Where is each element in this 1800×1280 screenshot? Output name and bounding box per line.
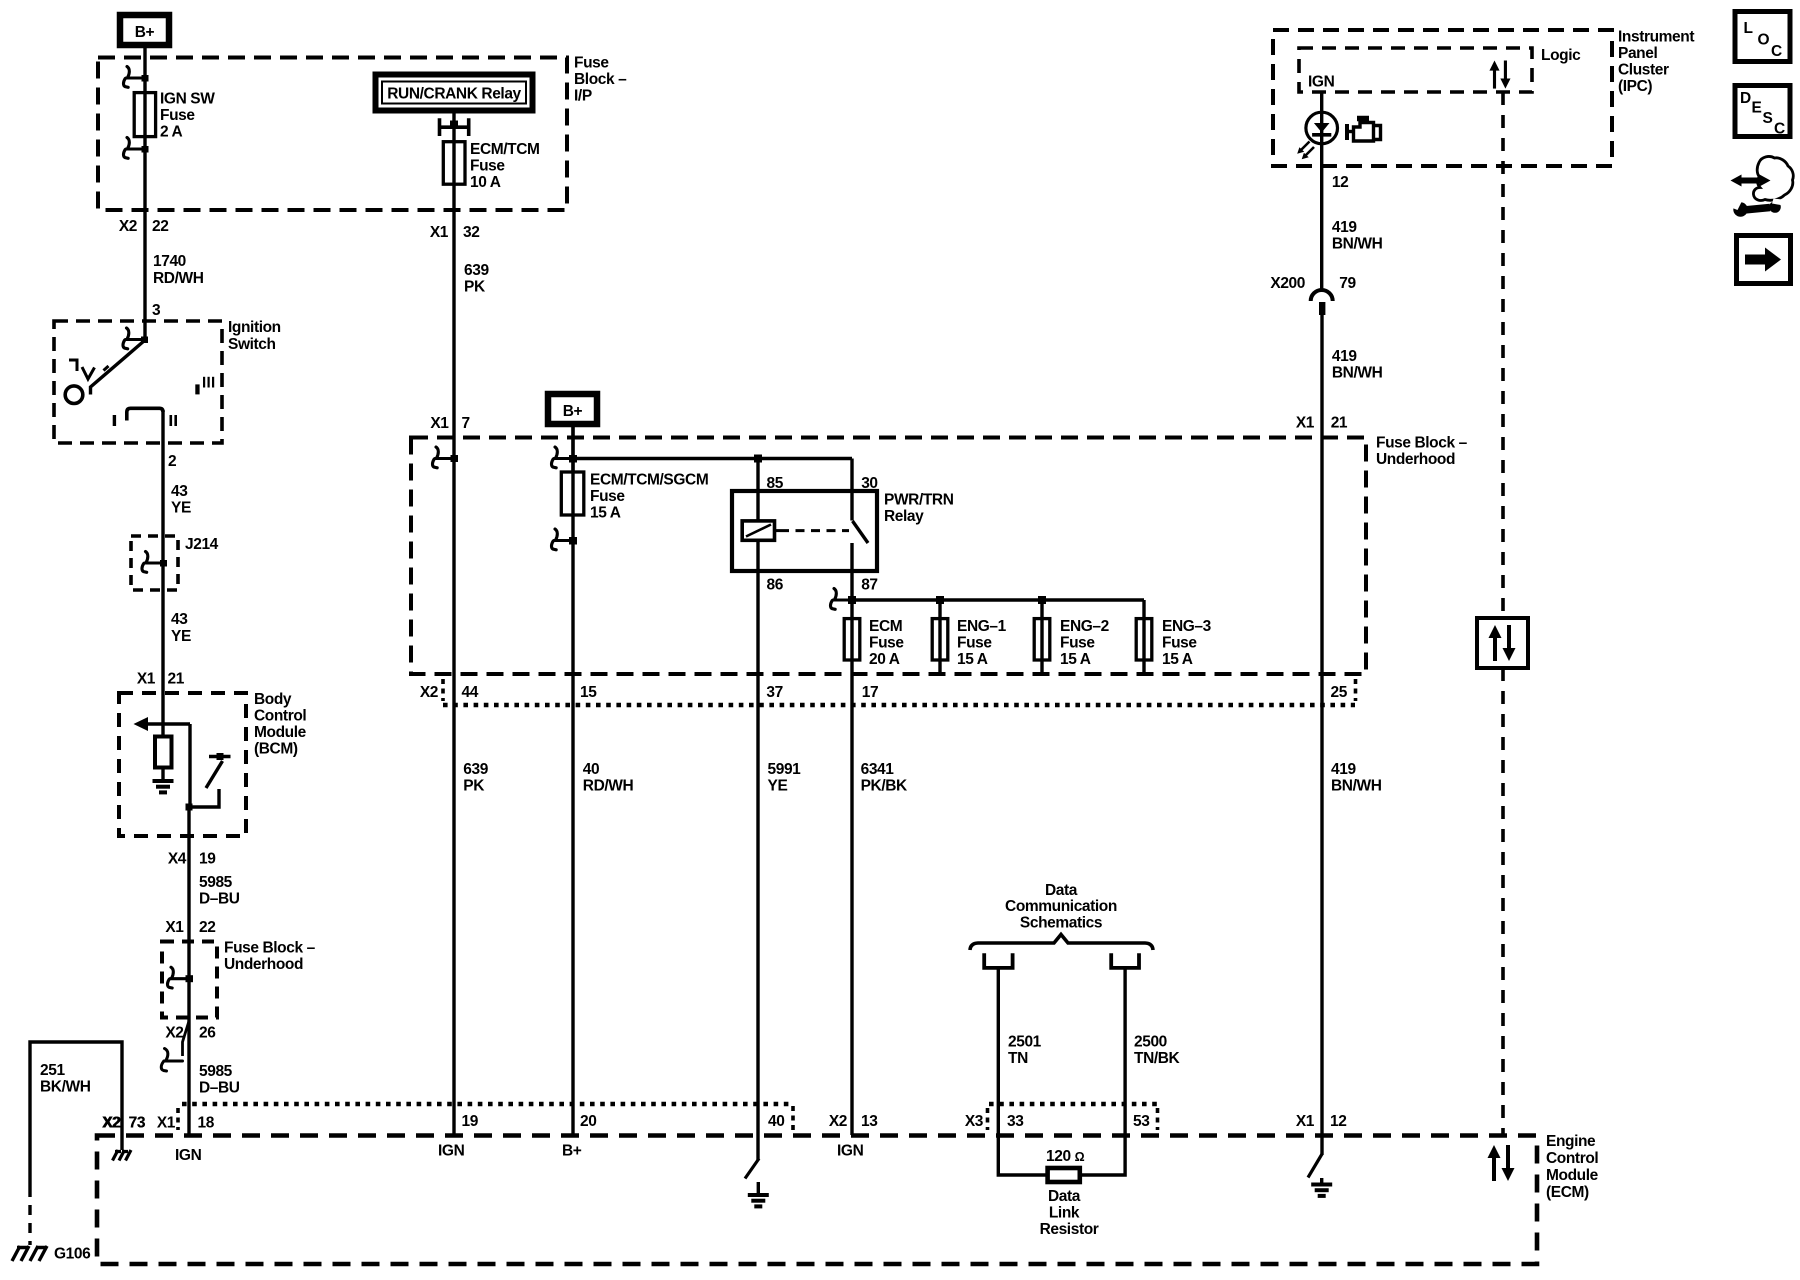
legend DESC box xyxy=(1735,86,1790,138)
IPC logic dashed box xyxy=(1299,48,1532,92)
wire ENG-3 fuse branch xyxy=(1142,600,1145,674)
ECM pin 40 internal switch blade xyxy=(745,1159,759,1179)
svg-text:12: 12 xyxy=(1330,1113,1346,1130)
wire B+ to ECM/TCM/SGCM fuse (x=573) xyxy=(571,427,574,472)
connector hook at B+ entry with junction dot xyxy=(551,447,577,468)
wire relay 30 branch down xyxy=(850,459,853,521)
relay contact lead to pin 87 xyxy=(850,543,853,571)
svg-text:19: 19 xyxy=(462,1113,479,1130)
svg-text:419: 419 xyxy=(1332,219,1357,236)
svg-text:RUN/CRANK Relay: RUN/CRANK Relay xyxy=(387,86,521,103)
wire IGN logic output to indicator (x=1321.7) xyxy=(1320,92,1323,290)
pin labels X1 32 xyxy=(430,224,480,241)
svg-text:X2: X2 xyxy=(165,1025,183,1042)
svg-text:X4: X4 xyxy=(168,851,187,868)
relay coil lead to pin 86 xyxy=(756,540,759,571)
wire label 419 BN/WH (middle) xyxy=(1332,348,1383,382)
connector hook at ignition switch input xyxy=(123,328,148,349)
relay switch blade xyxy=(853,521,869,543)
svg-text:IGN SW: IGN SW xyxy=(160,91,215,108)
svg-text:X3: X3 xyxy=(965,1113,984,1130)
connector hook at fuse block I/P feed xyxy=(123,67,148,88)
ECM pin 12 internal ground xyxy=(1311,1178,1332,1196)
wire 43 YE ignition switch to BCM (x=163) xyxy=(161,410,164,737)
BCM right branch wire with junction dot xyxy=(186,724,193,811)
relay output staple symbol with junction dot xyxy=(440,118,469,136)
svg-text:C: C xyxy=(1774,121,1785,138)
svg-text:26: 26 xyxy=(199,1025,216,1042)
svg-text:6341: 6341 xyxy=(861,761,895,778)
svg-text:Fuse: Fuse xyxy=(590,488,625,505)
connector hook at X1 7 entry xyxy=(432,447,458,468)
off-page connector bracket (2500 TN/BK) xyxy=(1111,953,1139,968)
fuse ENG-2 15A xyxy=(1034,619,1050,660)
wire 40 RD/WH fuse to ECM (x=573) xyxy=(571,427,574,1135)
svg-text:X1: X1 xyxy=(165,919,184,936)
svg-text:12: 12 xyxy=(1332,174,1348,191)
pin labels X4 19 xyxy=(168,851,216,868)
svg-text:X1: X1 xyxy=(430,415,449,432)
svg-text:Data: Data xyxy=(1048,1188,1081,1205)
svg-text:Block –: Block – xyxy=(574,71,627,88)
body control module BCM dashed box xyxy=(119,693,246,836)
svg-text:(IPC): (IPC) xyxy=(1618,78,1652,95)
label PWR/TRN Relay xyxy=(884,492,954,526)
svg-text:TN: TN xyxy=(1008,1050,1028,1067)
svg-text:B+: B+ xyxy=(562,1143,582,1160)
label Instrument Panel Cluster (IPC) xyxy=(1618,29,1694,96)
svg-text:PWR/TRN: PWR/TRN xyxy=(884,492,954,509)
pin labels X2 44 15 37 17 25 xyxy=(420,684,1348,701)
svg-text:3: 3 xyxy=(152,302,161,319)
fuse block I/P dashed box xyxy=(98,58,567,211)
label Data Link Resistor xyxy=(1040,1188,1099,1238)
svg-text:ECM/TCM/SGCM: ECM/TCM/SGCM xyxy=(590,472,708,489)
legend forward arrow box xyxy=(1737,236,1791,284)
svg-text:Fuse: Fuse xyxy=(574,55,609,72)
svg-text:639: 639 xyxy=(463,761,488,778)
wire label 2501 TN xyxy=(1008,1034,1042,1068)
BCM internal switch blade xyxy=(206,761,223,788)
ECM serial data arrows xyxy=(1488,1145,1515,1181)
ignition switch blade (movable contact) xyxy=(91,341,145,395)
svg-text:53: 53 xyxy=(1133,1113,1150,1130)
wire 2500 TN/BK serial data (x=1125) xyxy=(1080,968,1125,1175)
svg-text:15: 15 xyxy=(580,684,597,701)
svg-text:IGN: IGN xyxy=(837,1143,864,1160)
svg-text:Instrument: Instrument xyxy=(1618,29,1694,46)
ECM pin 40 internal ground xyxy=(748,1182,769,1206)
ground wire dashed lower segment xyxy=(28,1187,31,1245)
svg-text:22: 22 xyxy=(152,218,168,235)
svg-text:Fuse: Fuse xyxy=(160,107,195,124)
engine control module ECM dashed box xyxy=(97,1136,1537,1265)
indicator light emission arrows xyxy=(1297,142,1314,160)
svg-text:2500: 2500 xyxy=(1134,1034,1167,1051)
svg-text:ECM/TCM: ECM/TCM xyxy=(470,141,540,158)
PWR/TRN relay box xyxy=(732,491,877,571)
svg-text:120 Ω: 120 Ω xyxy=(1046,1148,1085,1165)
svg-text:O: O xyxy=(1758,32,1770,49)
fuse IGN SW 2A xyxy=(134,93,155,137)
svg-text:C: C xyxy=(1771,43,1782,60)
svg-text:15 A: 15 A xyxy=(957,651,988,668)
svg-text:I/P: I/P xyxy=(574,88,592,105)
svg-text:TN/BK: TN/BK xyxy=(1134,1050,1181,1067)
svg-text:15 A: 15 A xyxy=(590,505,621,522)
battery positive voltage box B+ (center) xyxy=(548,394,597,424)
fuse ECM/TCM 10A xyxy=(443,142,465,185)
svg-text:20: 20 xyxy=(580,1113,596,1130)
pin labels X2 26 xyxy=(165,1025,216,1042)
fuse ECM 20A xyxy=(844,619,860,660)
off-page connector bracket (2501 TN) xyxy=(984,953,1012,968)
connector tick X2 left xyxy=(441,679,445,701)
svg-text:Ignition: Ignition xyxy=(228,319,281,336)
svg-text:86: 86 xyxy=(767,577,784,594)
svg-text:BN/WH: BN/WH xyxy=(1332,365,1383,382)
chassis ground mark at ECM pin 73 xyxy=(113,1150,132,1161)
in-line connector X200 dome xyxy=(1311,290,1333,315)
indicator LED triangle and bar xyxy=(1312,123,1331,135)
svg-text:ENG–1: ENG–1 xyxy=(957,618,1007,635)
pin labels X2 22 xyxy=(119,218,169,235)
fuse block underhood pass-through dashed box xyxy=(162,942,217,1018)
svg-text:BN/WH: BN/WH xyxy=(1331,778,1382,795)
svg-text:1740: 1740 xyxy=(153,253,186,270)
node junction dot ENG-2 branch xyxy=(1038,596,1046,604)
svg-text:BK/WH: BK/WH xyxy=(40,1079,91,1096)
connector hook at J214 xyxy=(142,552,167,573)
svg-text:Cluster: Cluster xyxy=(1618,62,1669,79)
svg-text:(ECM): (ECM) xyxy=(1546,1184,1589,1201)
svg-text:X2: X2 xyxy=(829,1113,847,1130)
svg-text:Resistor: Resistor xyxy=(1040,1221,1099,1238)
wire 6341 PK/BK relay 87 to ECM (x=852) xyxy=(850,571,853,1135)
svg-text:5991: 5991 xyxy=(768,761,802,778)
IPC logic serial data arrows xyxy=(1489,61,1510,89)
resistor Data Link 120 ohm xyxy=(1048,1168,1080,1182)
wire label 5985 D-BU xyxy=(199,874,240,908)
BCM internal switch fixed contact xyxy=(209,753,231,760)
ignition switch dashed box xyxy=(54,321,222,443)
ignition switch position II contact arc xyxy=(127,408,163,420)
svg-text:5985: 5985 xyxy=(199,874,233,891)
relay coil to contact dashed link xyxy=(775,529,850,532)
wire label 43 YE xyxy=(171,483,191,517)
pin labels X1 21 (BCM input) xyxy=(137,671,185,688)
svg-text:40: 40 xyxy=(768,1113,784,1130)
svg-text:Module: Module xyxy=(254,724,307,741)
wire ENG-1 fuse branch xyxy=(938,600,941,674)
bus wire 87 to ENG fuses (y=600) xyxy=(852,598,1144,601)
BCM internal ground xyxy=(153,781,174,792)
wire 5985 D-BU BCM to ECM (x=189) xyxy=(187,807,190,1135)
svg-text:15 A: 15 A xyxy=(1060,651,1091,668)
label ENG-1 Fuse 15A xyxy=(957,618,1007,668)
BCM internal resistor xyxy=(155,737,172,768)
ground wire 251 BK/WH loop xyxy=(30,1042,122,1187)
svg-text:X1: X1 xyxy=(157,1115,176,1132)
pin labels X1 21 (fuse block underhood right) xyxy=(1296,415,1348,432)
svg-text:Fuse Block –: Fuse Block – xyxy=(224,940,316,957)
svg-text:Link: Link xyxy=(1049,1205,1080,1222)
svg-text:Module: Module xyxy=(1546,1167,1599,1184)
svg-text:X1: X1 xyxy=(137,671,156,688)
wire label 1740 RD/WH xyxy=(153,253,204,287)
svg-text:7: 7 xyxy=(462,415,470,432)
label ENG-2 Fuse 15A xyxy=(1060,618,1109,668)
svg-text:43: 43 xyxy=(171,483,188,500)
svg-text:43: 43 xyxy=(171,611,188,628)
svg-text:Fuse: Fuse xyxy=(470,158,505,175)
wire 5991 YE relay 86 to ECM (x=758) xyxy=(756,571,759,1160)
label ENG-3 Fuse 15A xyxy=(1162,618,1212,668)
svg-text:17: 17 xyxy=(862,684,878,701)
svg-text:E: E xyxy=(1752,100,1762,117)
connector hook inside small fuse block box xyxy=(167,967,193,988)
svg-text:B+: B+ xyxy=(135,24,155,41)
svg-text:2 A: 2 A xyxy=(160,124,183,141)
node junction dot ENG-1 branch xyxy=(936,596,944,604)
label Fuse Block Underhood xyxy=(1376,435,1468,469)
connector hook below SGCM fuse with dot xyxy=(551,529,577,550)
wire label 639 PK xyxy=(464,262,489,296)
svg-text:20 A: 20 A xyxy=(869,651,900,668)
svg-text:IGN: IGN xyxy=(1308,74,1335,91)
wire B+ feed to IGN SW fuse (vertical, x=145) xyxy=(143,48,146,210)
pin labels X2 73 xyxy=(103,1115,146,1132)
svg-text:13: 13 xyxy=(861,1113,878,1130)
connector tick X3 left xyxy=(986,1108,990,1130)
svg-text:ENG–3: ENG–3 xyxy=(1162,618,1212,635)
wire label 6341 PK/BK xyxy=(861,761,908,795)
svg-text:22: 22 xyxy=(199,919,215,936)
svg-text:37: 37 xyxy=(766,684,782,701)
svg-text:33: 33 xyxy=(1007,1113,1024,1130)
wire label 251 BK/WH xyxy=(40,1062,91,1096)
fuse block underhood X2 connector dotted line xyxy=(443,703,1355,708)
in-line connector jog and hook below X2 26 xyxy=(161,1021,189,1071)
wire label 5985 D-BU (lower) xyxy=(199,1063,240,1097)
svg-text:Fuse Block –: Fuse Block – xyxy=(1376,435,1468,452)
label ECM Fuse 20A xyxy=(869,618,904,668)
wire 2501 TN serial data (x=998) xyxy=(998,968,1047,1175)
legend wrench icon xyxy=(1726,196,1782,217)
svg-text:RD/WH: RD/WH xyxy=(583,778,634,795)
svg-text:18: 18 xyxy=(198,1115,215,1132)
BCM resistor lead to ground xyxy=(161,768,164,780)
svg-text:B+: B+ xyxy=(563,403,583,420)
svg-text:Control: Control xyxy=(1546,1150,1598,1167)
svg-text:X1: X1 xyxy=(1296,415,1315,432)
svg-text:X2: X2 xyxy=(420,684,438,701)
svg-text:L: L xyxy=(1744,20,1753,37)
svg-text:639: 639 xyxy=(464,262,489,279)
connector tick X1 (pin 18) xyxy=(176,1108,180,1130)
svg-text:(BCM): (BCM) xyxy=(254,741,298,758)
svg-text:PK: PK xyxy=(464,279,486,296)
svg-text:32: 32 xyxy=(463,224,479,241)
wire 639 PK RUN/CRANK relay to ECM (x=454) xyxy=(452,111,455,1136)
ignition switch position I mark xyxy=(113,415,116,426)
svg-text:Underhood: Underhood xyxy=(1376,451,1455,468)
BCM internal branch arrow (to other circuits) xyxy=(134,717,191,731)
svg-text:ENG–2: ENG–2 xyxy=(1060,618,1109,635)
wire label 419 BN/WH (upper) xyxy=(1332,219,1383,253)
label Engine Control Module (ECM) xyxy=(1546,1133,1599,1201)
wire label 639 PK (lower) xyxy=(463,761,488,795)
svg-text:Body: Body xyxy=(254,691,292,708)
svg-text:X2: X2 xyxy=(102,1115,120,1132)
svg-text:YE: YE xyxy=(171,628,191,645)
legend hand with double arrow icon xyxy=(1731,157,1794,201)
label Fuse Block Underhood (small) xyxy=(224,940,316,974)
BCM internal switch lead xyxy=(189,789,219,807)
wire label 5991 YE xyxy=(768,761,802,795)
ECM pin 12 internal switch blade xyxy=(1308,1154,1322,1178)
pin labels 85 30 (relay coil/contact) xyxy=(767,475,878,492)
fuse ENG-1 15A xyxy=(932,619,948,660)
svg-text:YE: YE xyxy=(768,778,788,795)
label Body Control Module (BCM) xyxy=(254,691,307,758)
wire fuse to ignition switch xyxy=(143,210,146,341)
svg-text:44: 44 xyxy=(462,684,479,701)
legend LOC box xyxy=(1735,12,1790,62)
ECM X1 connector dotted line (left) xyxy=(182,1102,790,1107)
svg-text:Underhood: Underhood xyxy=(224,956,303,973)
svg-text:Engine: Engine xyxy=(1546,1133,1596,1150)
svg-text:Fuse: Fuse xyxy=(1060,635,1095,652)
connector hook at 87 bus with junction dot xyxy=(830,589,856,610)
pin labels X1 22 (underhood fuse block) xyxy=(165,919,215,936)
svg-text:5985: 5985 xyxy=(199,1063,233,1080)
svg-text:419: 419 xyxy=(1331,761,1356,778)
svg-text:D–BU: D–BU xyxy=(199,891,240,908)
svg-text:Logic: Logic xyxy=(1541,47,1581,64)
svg-text:J214: J214 xyxy=(185,536,219,553)
net labels IGN B+ IGN inside ECM xyxy=(175,1143,864,1165)
svg-text:Data: Data xyxy=(1045,882,1078,899)
svg-text:Switch: Switch xyxy=(228,336,276,353)
svg-text:Control: Control xyxy=(254,708,306,725)
svg-text:73: 73 xyxy=(129,1115,146,1132)
svg-text:2: 2 xyxy=(168,453,176,470)
svg-text:19: 19 xyxy=(199,851,216,868)
serial data dashed wire logic to ECM (x=1503) xyxy=(1501,92,1505,1135)
svg-text:Panel: Panel xyxy=(1618,45,1657,62)
svg-text:Fuse: Fuse xyxy=(869,635,904,652)
connector hook below IGN SW fuse xyxy=(123,138,148,159)
label Ignition Switch xyxy=(228,319,281,353)
brace over data link wires xyxy=(970,935,1153,951)
connector tick right of pin 40 xyxy=(791,1106,795,1130)
svg-text:10 A: 10 A xyxy=(470,174,501,191)
battery positive voltage box B+ (top left) xyxy=(120,15,169,45)
relay coil xyxy=(742,521,774,540)
wire 419 BN/WH X200 to fuse block (x=1322) xyxy=(1320,314,1323,1155)
label ECM/TCM/SGCM Fuse 15A xyxy=(590,472,708,522)
svg-text:15 A: 15 A xyxy=(1162,651,1193,668)
svg-text:251: 251 xyxy=(40,1062,65,1079)
wire ENG-2 fuse branch xyxy=(1040,600,1043,674)
wire label 40 RD/WH xyxy=(583,761,634,795)
svg-text:Schematics: Schematics xyxy=(1020,915,1102,932)
svg-text:S: S xyxy=(1763,110,1773,127)
fuse ECM/TCM/SGCM 15A xyxy=(561,472,584,515)
svg-text:IGN: IGN xyxy=(438,1143,465,1160)
ECM X3 connector dotted line xyxy=(989,1102,1159,1107)
svg-text:PK/BK: PK/BK xyxy=(861,778,908,795)
wire label 43 YE (below J214) xyxy=(171,611,191,645)
svg-text:X1: X1 xyxy=(1296,1113,1315,1130)
svg-text:X2: X2 xyxy=(119,218,137,235)
ignition switch position III marks xyxy=(195,377,214,395)
svg-text:Fuse: Fuse xyxy=(1162,635,1197,652)
ignition switch ACC contact marks xyxy=(69,359,109,380)
RUN/CRANK Relay title box (double border) xyxy=(376,75,533,111)
svg-text:BN/WH: BN/WH xyxy=(1332,236,1383,253)
svg-text:ECM: ECM xyxy=(869,618,902,635)
label Data Communication Schematics xyxy=(1005,882,1117,932)
svg-text:419: 419 xyxy=(1332,348,1357,365)
svg-text:79: 79 xyxy=(1339,275,1356,292)
svg-text:YE: YE xyxy=(171,500,191,517)
svg-text:87: 87 xyxy=(861,577,877,594)
serial data in-line arrows box xyxy=(1477,618,1528,668)
ECM pin labels bottom row xyxy=(102,1113,1347,1132)
svg-text:21: 21 xyxy=(1331,415,1348,432)
connector tick right of pin 53 xyxy=(1156,1108,1160,1130)
splice J214 dashed box xyxy=(131,536,178,590)
fuse block underhood dashed box xyxy=(411,438,1366,675)
svg-text:IGN: IGN xyxy=(175,1147,202,1164)
svg-text:40: 40 xyxy=(583,761,599,778)
connector tick right of 25 xyxy=(1354,679,1358,701)
node junction dot at relay 85 branch xyxy=(754,455,762,463)
indicator LED circle xyxy=(1306,112,1338,144)
svg-text:D–BU: D–BU xyxy=(199,1080,240,1097)
wire relay 85 branch down xyxy=(756,459,759,522)
svg-text:Relay: Relay xyxy=(884,508,924,525)
wire label 419 BN/WH (lower) xyxy=(1331,761,1382,795)
svg-text:D: D xyxy=(1740,90,1751,107)
svg-text:RD/WH: RD/WH xyxy=(153,270,204,287)
ground G106 chassis symbol xyxy=(12,1246,47,1261)
svg-text:X1: X1 xyxy=(430,224,449,241)
pin labels 86 87 xyxy=(767,577,878,594)
svg-text:2501: 2501 xyxy=(1008,1034,1042,1051)
label ECM/TCM Fuse 10A xyxy=(470,141,540,191)
svg-text:Communication: Communication xyxy=(1005,898,1117,915)
ignition switch pivot terminal (circle) xyxy=(65,386,83,404)
pin labels X1 7 xyxy=(430,415,469,432)
wire label 2500 TN/BK xyxy=(1134,1034,1181,1068)
svg-text:PK: PK xyxy=(463,778,485,795)
pin labels X200 79 xyxy=(1270,275,1356,292)
fuse ENG-3 15A xyxy=(1136,619,1152,660)
svg-text:X200: X200 xyxy=(1270,275,1305,292)
ignition switch position II mark xyxy=(170,415,178,426)
svg-text:21: 21 xyxy=(168,671,185,688)
svg-text:G106: G106 xyxy=(54,1246,91,1263)
svg-text:Fuse: Fuse xyxy=(957,635,992,652)
svg-text:25: 25 xyxy=(1331,684,1348,701)
bus wire B+ to relay pins 85/30 (y=458.5) xyxy=(573,457,852,460)
instrument panel cluster IPC dashed box xyxy=(1273,30,1612,166)
engine icon (MIL) xyxy=(1347,119,1381,142)
